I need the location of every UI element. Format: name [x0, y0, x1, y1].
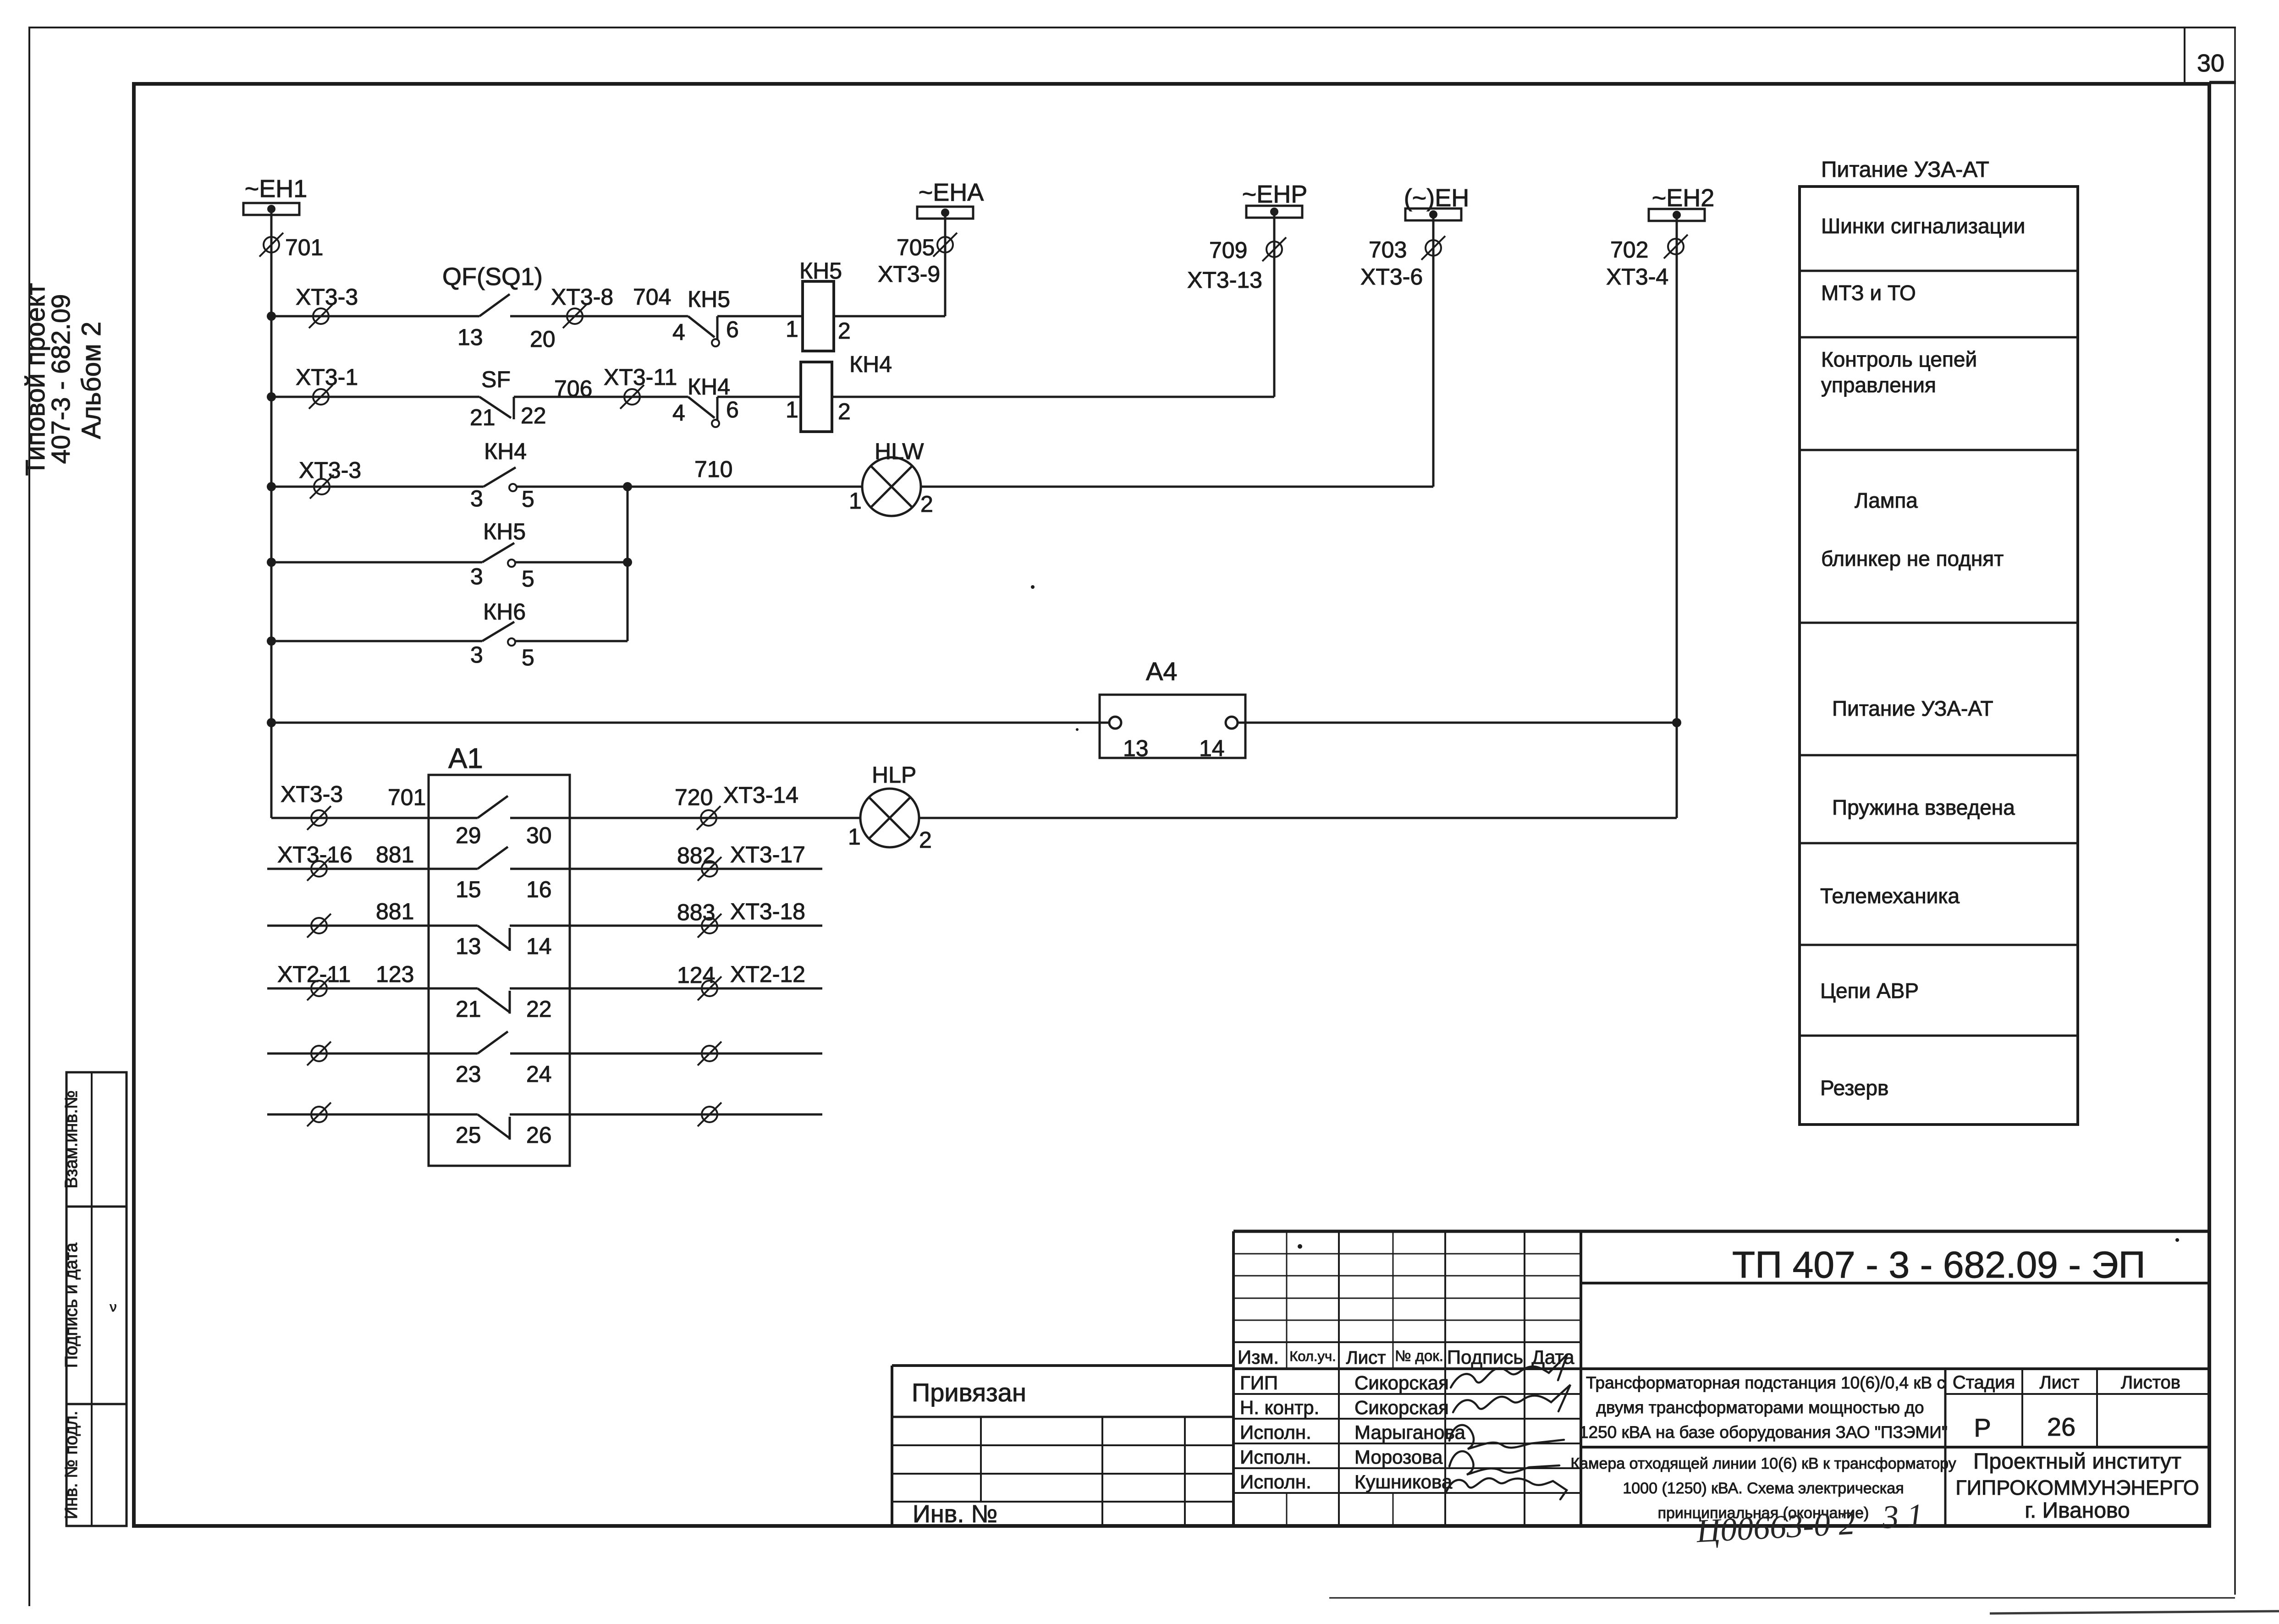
svg-text:407-3 - 682.09: 407-3 - 682.09 [46, 294, 76, 464]
svg-text:управления: управления [1821, 373, 1936, 397]
svg-text:А4: А4 [1146, 657, 1178, 686]
svg-text:Лист: Лист [1346, 1348, 1386, 1368]
svg-text:КН5: КН5 [483, 519, 526, 544]
svg-text:2: 2 [838, 318, 851, 344]
svg-text:Взам.инв.№: Взам.инв.№ [62, 1090, 81, 1188]
svg-text:703: 703 [1369, 237, 1407, 263]
svg-text:21: 21 [456, 996, 481, 1022]
svg-text:Питание УЗА-АТ: Питание УЗА-АТ [1832, 697, 1993, 720]
svg-text:Листов: Листов [2121, 1372, 2180, 1393]
svg-text:Шинки сигнализации: Шинки сигнализации [1821, 214, 2025, 238]
svg-text:Инв. №: Инв. № [913, 1500, 997, 1528]
svg-text:1000 (1250) кВА. Схема электри: 1000 (1250) кВА. Схема электрическая [1623, 1480, 1904, 1497]
svg-text:123: 123 [376, 961, 414, 987]
svg-text:~ЕНР: ~ЕНР [1242, 181, 1308, 208]
svg-text:Трансформаторная подстанция 10: Трансформаторная подстанция 10(6)/0,4 кВ… [1586, 1373, 1945, 1392]
svg-text:26: 26 [526, 1122, 552, 1148]
svg-text:25: 25 [456, 1122, 481, 1148]
svg-text:ХТ3-16: ХТ3-16 [277, 842, 352, 867]
svg-text:Цепи АВР: Цепи АВР [1820, 979, 1919, 1003]
svg-text:(~)ЕН: (~)ЕН [1404, 184, 1470, 212]
svg-text:Альбом 2: Альбом 2 [77, 322, 106, 439]
svg-text:~ЕН1: ~ЕН1 [245, 175, 308, 203]
svg-text:3: 3 [470, 642, 483, 668]
svg-text:ХТ3-4: ХТ3-4 [1606, 264, 1668, 290]
svg-text:Сикорская: Сикорская [1354, 1372, 1449, 1394]
svg-text:ХТ2-11: ХТ2-11 [277, 961, 351, 987]
svg-text:ГИПРОКОММУНЭНЕРГО: ГИПРОКОММУНЭНЕРГО [1955, 1476, 2199, 1499]
svg-text:1: 1 [786, 397, 798, 422]
svg-text:23: 23 [456, 1061, 481, 1087]
svg-text:Пружина взведена: Пружина взведена [1832, 796, 2015, 819]
svg-text:30: 30 [2197, 49, 2224, 77]
svg-text:882: 882 [677, 843, 715, 868]
svg-text:13: 13 [456, 933, 481, 959]
svg-text:Проектный институт: Проектный институт [1973, 1449, 2181, 1474]
svg-text:1: 1 [849, 488, 862, 514]
svg-text:16: 16 [526, 877, 552, 902]
svg-text:701: 701 [388, 785, 426, 810]
svg-text:КН5: КН5 [799, 258, 842, 284]
svg-text:ХТ3-8: ХТ3-8 [551, 284, 613, 310]
svg-text:13: 13 [457, 324, 483, 350]
svg-text:13: 13 [1123, 735, 1149, 761]
svg-text:Телемеханика: Телемеханика [1820, 884, 1960, 908]
svg-text:Лампа: Лампа [1855, 488, 1918, 512]
svg-text:SF: SF [481, 367, 511, 392]
svg-text:Н. контр.: Н. контр. [1240, 1397, 1319, 1418]
svg-text:ν: ν [110, 1300, 117, 1315]
svg-text:ХТ3-3: ХТ3-3 [281, 781, 343, 807]
svg-text:2: 2 [919, 827, 932, 853]
svg-text:Кушникова: Кушникова [1354, 1471, 1453, 1492]
svg-text:Ц00663-0 2: Ц00663-0 2 [1695, 1504, 1856, 1549]
svg-text:QF(SQ1): QF(SQ1) [442, 263, 543, 291]
svg-text:~ЕН2: ~ЕН2 [1652, 184, 1715, 212]
svg-text:блинкер не поднят: блинкер не поднят [1821, 547, 2004, 571]
svg-text:ХТ3-3: ХТ3-3 [299, 457, 361, 483]
svg-text:Исполн.: Исполн. [1240, 1446, 1311, 1468]
svg-text:6: 6 [726, 317, 739, 342]
svg-text:5: 5 [522, 486, 534, 512]
svg-text:Исполн.: Исполн. [1240, 1421, 1311, 1443]
svg-text:2: 2 [838, 399, 851, 424]
svg-text:710: 710 [694, 456, 732, 482]
svg-text:ХТ3-1: ХТ3-1 [296, 364, 358, 390]
svg-text:Питание УЗА-АТ: Питание УЗА-АТ [1821, 158, 1989, 182]
svg-text:КН4: КН4 [849, 351, 892, 377]
svg-text:22: 22 [521, 403, 546, 428]
svg-text:3: 3 [470, 564, 483, 589]
svg-text:709: 709 [1209, 237, 1247, 263]
svg-text:Привязан: Привязан [912, 1378, 1026, 1407]
svg-text:1: 1 [786, 316, 798, 342]
svg-text:6: 6 [726, 397, 739, 422]
svg-text:4: 4 [672, 319, 685, 345]
svg-text:1250 кВА на базе оборудования: 1250 кВА на базе оборудования ЗАО "ПЗЭМИ… [1579, 1423, 1948, 1442]
svg-text:124: 124 [677, 962, 715, 988]
svg-text:30: 30 [526, 823, 552, 848]
svg-text:МТЗ и ТО: МТЗ и ТО [1821, 281, 1916, 305]
svg-text:24: 24 [526, 1061, 552, 1087]
svg-text:Сикорская: Сикорская [1354, 1397, 1449, 1418]
svg-text:2: 2 [920, 491, 933, 517]
svg-text:г. Иваново: г. Иваново [2025, 1498, 2130, 1523]
svg-text:4: 4 [672, 400, 685, 426]
svg-text:ХТ3-6: ХТ3-6 [1360, 264, 1423, 290]
svg-text:ХТ2-12: ХТ2-12 [730, 961, 805, 987]
svg-text:Кол.уч.: Кол.уч. [1289, 1348, 1336, 1364]
svg-text:ХТ3-9: ХТ3-9 [878, 261, 940, 287]
svg-text:Морозова: Морозова [1354, 1446, 1443, 1468]
svg-text:Исполн.: Исполн. [1240, 1471, 1311, 1492]
svg-text:~ЕНА: ~ЕНА [919, 179, 984, 206]
svg-text:701: 701 [285, 235, 323, 260]
svg-text:29: 29 [456, 823, 481, 848]
svg-text:Изм.: Изм. [1238, 1346, 1279, 1368]
svg-text:26: 26 [2047, 1412, 2075, 1441]
svg-text:Инв. № подл.: Инв. № подл. [62, 1411, 81, 1520]
svg-text:20: 20 [530, 326, 556, 352]
svg-text:881: 881 [376, 899, 414, 924]
svg-text:КН4: КН4 [688, 374, 730, 400]
svg-text:КН4: КН4 [484, 439, 527, 464]
svg-text:883: 883 [677, 900, 715, 925]
svg-text:14: 14 [1199, 735, 1225, 761]
svg-text:15: 15 [456, 877, 481, 902]
svg-text:HLW: HLW [875, 439, 924, 464]
svg-text:705: 705 [897, 235, 935, 260]
svg-text:ХТ3-13: ХТ3-13 [1187, 267, 1262, 293]
svg-text:14: 14 [526, 933, 552, 959]
svg-text:ХТ3-3: ХТ3-3 [296, 284, 358, 310]
svg-text:Стадия: Стадия [1953, 1372, 2015, 1393]
svg-text:ХТ3-18: ХТ3-18 [730, 899, 805, 924]
svg-text:5: 5 [522, 645, 534, 670]
svg-text:Контроль цепей: Контроль цепей [1821, 347, 1977, 371]
svg-text:Лист: Лист [2040, 1372, 2080, 1393]
svg-text:Резерв: Резерв [1820, 1076, 1888, 1100]
svg-text:Подпись и дата: Подпись и дата [62, 1242, 81, 1368]
svg-text:720: 720 [675, 785, 713, 810]
svg-text:ГИП: ГИП [1240, 1372, 1278, 1394]
svg-text:702: 702 [1610, 237, 1648, 263]
svg-text:5: 5 [522, 566, 534, 592]
svg-text:№ док.: № док. [1395, 1347, 1443, 1364]
svg-text:Дата: Дата [1531, 1346, 1574, 1368]
svg-text:А1: А1 [448, 743, 483, 774]
svg-text:КН5: КН5 [688, 286, 730, 312]
svg-text:Подпись: Подпись [1447, 1346, 1523, 1368]
svg-text:ТП 407 - 3 - 682.09 - ЭП: ТП 407 - 3 - 682.09 - ЭП [1732, 1244, 2146, 1286]
svg-text:двумя трансформаторами мощност: двумя трансформаторами мощностью до [1596, 1398, 1924, 1417]
svg-text:ХТ3-17: ХТ3-17 [730, 842, 805, 867]
svg-text:Р: Р [1974, 1413, 1991, 1442]
svg-text:21: 21 [470, 405, 495, 430]
svg-text:ХТ3-11: ХТ3-11 [604, 364, 677, 390]
svg-text:3 1: 3 1 [1881, 1497, 1924, 1536]
svg-text:704: 704 [633, 284, 671, 310]
svg-text:3: 3 [470, 486, 483, 511]
svg-text:ХТ3-14: ХТ3-14 [723, 782, 798, 808]
svg-text:881: 881 [376, 842, 414, 867]
svg-text:706: 706 [554, 376, 592, 401]
svg-text:Камера отходящей линии 10(6) к: Камера отходящей линии 10(6) кВ к трансф… [1570, 1455, 1956, 1472]
svg-text:КН6: КН6 [483, 599, 526, 625]
svg-text:1: 1 [848, 824, 861, 850]
svg-text:HLP: HLP [872, 762, 916, 788]
svg-text:22: 22 [526, 996, 552, 1022]
